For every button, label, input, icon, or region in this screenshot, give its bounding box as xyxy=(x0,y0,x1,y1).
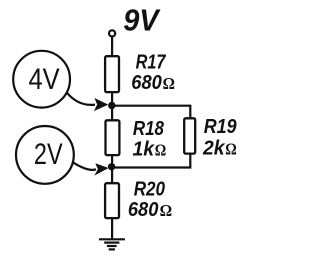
resistor R19 xyxy=(184,118,195,153)
svg-text:680: 680 xyxy=(128,199,158,221)
svg-text:R18: R18 xyxy=(133,118,165,140)
svg-text:4V: 4V xyxy=(29,63,60,96)
wire terminal to R17 xyxy=(111,37,113,58)
voltage indicator circle 2V xyxy=(16,126,74,184)
wire R17 to R18 xyxy=(111,92,113,121)
ground xyxy=(99,239,125,249)
svg-text:R17: R17 xyxy=(136,52,167,74)
svg-text:9V: 9V xyxy=(123,2,161,37)
arrow 4V to node A xyxy=(67,93,108,111)
voltage indicator circle 4V xyxy=(13,51,70,108)
svg-text:Ω: Ω xyxy=(163,74,175,93)
svg-text:1k: 1k xyxy=(133,139,155,161)
svg-text:R19: R19 xyxy=(204,116,238,138)
svg-text:Ω: Ω xyxy=(155,141,167,160)
svg-text:R20: R20 xyxy=(134,179,165,201)
wire node A to R19 top xyxy=(112,106,191,119)
svg-text:2V: 2V xyxy=(34,138,63,171)
wire R19 bottom to node B xyxy=(112,154,191,168)
svg-text:680: 680 xyxy=(131,72,162,94)
resistor R17 xyxy=(105,56,119,92)
wire R18 to R20 xyxy=(111,155,113,184)
svg-text:Ω: Ω xyxy=(160,201,173,220)
supply terminal 9V xyxy=(109,30,115,36)
resistor R18 xyxy=(106,120,120,155)
svg-text:Ω: Ω xyxy=(225,140,237,159)
arrow 2V to node B xyxy=(72,162,109,176)
svg-text:2k: 2k xyxy=(202,138,225,160)
wire R20 to ground xyxy=(111,218,113,240)
resistor R20 xyxy=(105,183,119,218)
node A junction dot xyxy=(108,102,115,109)
node B junction dot xyxy=(108,163,115,170)
